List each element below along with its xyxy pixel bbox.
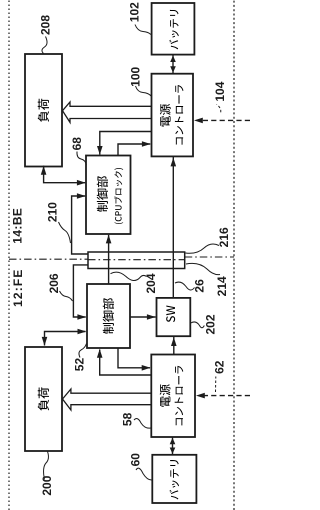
control unit 68 (CPU block) box [86,156,131,235]
label 214 [186,263,229,296]
label 26 [175,279,207,293]
svg-text:58: 58 [120,412,134,426]
wire: load 208 to CPU 68 (L path, both arrows) [41,166,86,186]
wire: battery 60 to controller 58 (double arrow) [170,437,176,455]
label 58 [120,412,150,428]
label 204 [111,272,159,293]
wire: controller 58 to SW [171,336,177,354]
wire: external power input 62 (dashed arrow) [196,393,250,399]
svg-text:100: 100 [129,66,143,86]
connector 26 box [88,252,185,269]
svg-text:102: 102 [128,2,142,22]
wire: control unit 52 to SW gate [130,314,156,320]
svg-text:210: 210 [46,202,60,222]
svg-text:60: 60 [129,453,143,467]
wire: communication line 204 (52 to 68 through connector) [106,235,112,284]
wire: load 200 to control unit 52 (L path, both arrows) [42,329,87,346]
wire: camera body outline bottom (dotted) [233,0,235,510]
svg-text:52: 52 [73,358,87,372]
svg-text:208: 208 [39,15,53,35]
label 68 [70,137,86,165]
label 202 [191,314,218,334]
label 200 [40,452,54,496]
load 208 box [25,54,62,167]
label 62 [213,360,227,392]
svg-text:62: 62 [213,360,227,374]
wire: controller 58 to control unit 52 [97,349,151,375]
svg-text:202: 202 [204,314,218,334]
power controller 58 box [151,355,195,438]
wire: battery 102 to controller 100 (double arrow) [170,55,176,74]
wire: power supply block arrow FE (58 to 200) [63,389,152,410]
label 210 [46,202,71,243]
svg-text:206: 206 [47,273,61,293]
svg-text:200: 200 [40,475,54,495]
label 206 [47,273,73,301]
svg-text:104: 104 [213,81,227,101]
wire: camera body outline top (dotted) [8,0,10,510]
label 208 [39,15,53,54]
svg-text:214: 214 [215,276,229,296]
label 102 [128,2,151,35]
svg-text:216: 216 [217,227,231,247]
svg-text:14:BE: 14:BE [11,208,25,244]
wire: serial line 210 (connector to CPU 68) [72,193,88,254]
wire: control unit 52 to controller 58 [118,348,151,371]
svg-text:26: 26 [193,279,207,293]
wire: external power input 104 (dashed arrow) [194,118,250,124]
label 216 [186,227,232,253]
wire: power line SW through connector 26 to controller 100 [171,157,177,298]
label 52 [73,344,87,372]
label 12:FE [11,268,25,307]
wire: FE/BE boundary line (dash-dot) [9,257,234,260]
label 104 [213,81,227,112]
battery 102 box [152,3,195,55]
load 200 box [25,347,62,451]
label 14:BE [11,208,25,244]
label 60 [129,453,152,480]
label 100 [129,66,152,96]
wire: controller 100 to CPU 68 [97,132,152,155]
battery 60 box [152,455,196,503]
switch SW 202 box [157,298,191,336]
power controller 100 box [152,74,194,157]
control unit 52 box [87,284,130,348]
svg-text:12:FE: 12:FE [11,268,25,307]
svg-text:68: 68 [70,137,84,151]
patent figure: imaging device FE/BE power system block diagram (rotated page) [0,0,250,510]
wire: serial line 206 (connector to control unit 52) [73,265,88,320]
wire: CPU 68 to controller 100 [118,141,151,155]
wire: power supply block arrow BE (100 to 208) [63,102,152,122]
